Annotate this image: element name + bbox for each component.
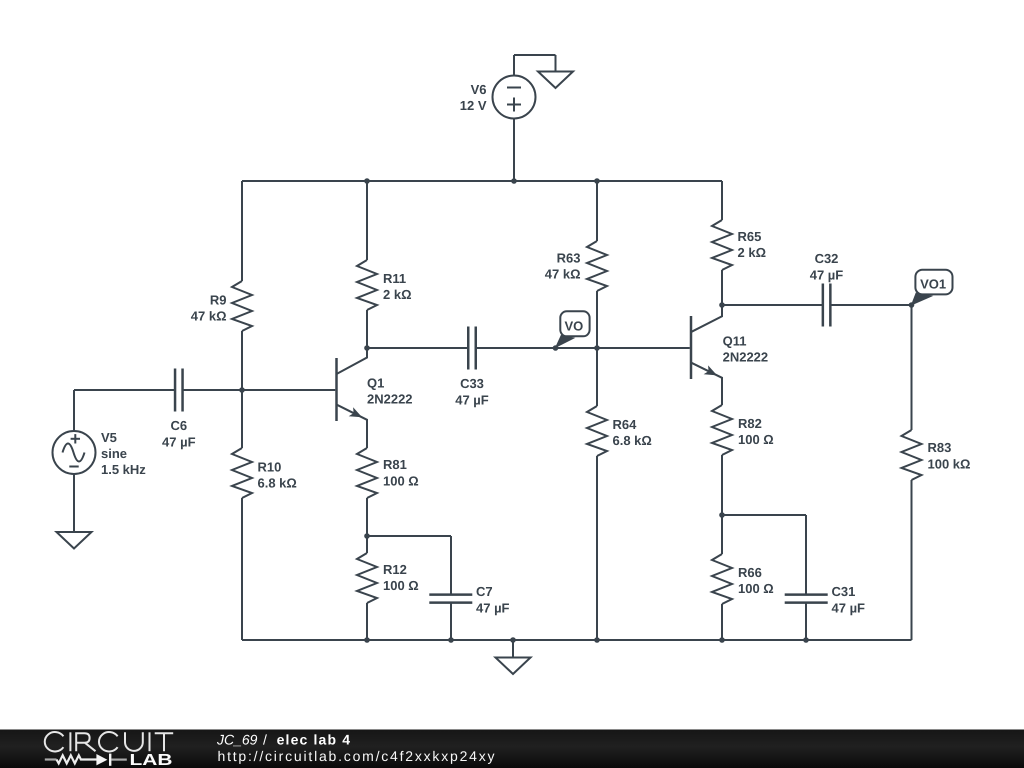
svg-text:47 µF: 47 µF <box>455 392 489 407</box>
svg-text:47 µF: 47 µF <box>832 600 866 615</box>
svg-text:2N2222: 2N2222 <box>723 349 769 364</box>
svg-text:100 Ω: 100 Ω <box>383 578 419 593</box>
svg-text:100 kΩ: 100 kΩ <box>928 456 971 471</box>
svg-text:Q1: Q1 <box>367 375 384 390</box>
svg-text:elec lab 4: elec lab 4 <box>277 732 351 748</box>
svg-text:1.5 kHz: 1.5 kHz <box>101 462 146 477</box>
svg-text:47 kΩ: 47 kΩ <box>545 267 581 282</box>
svg-text:R9: R9 <box>210 293 227 308</box>
svg-text:2N2222: 2N2222 <box>367 391 413 406</box>
svg-text:R63: R63 <box>557 251 581 266</box>
svg-text:47 kΩ: 47 kΩ <box>191 309 227 324</box>
svg-text:2 kΩ: 2 kΩ <box>383 287 412 302</box>
svg-text:R10: R10 <box>258 459 282 474</box>
svg-text:100 Ω: 100 Ω <box>738 432 774 447</box>
svg-text:http://circuitlab.com/c4f2xxkx: http://circuitlab.com/c4f2xxkxp24xy <box>218 748 495 764</box>
svg-text:/: / <box>263 732 267 748</box>
svg-text:R11: R11 <box>383 271 406 286</box>
svg-text:C32: C32 <box>815 251 839 266</box>
svg-text:LAB: LAB <box>130 752 173 768</box>
svg-text:100 Ω: 100 Ω <box>738 581 774 596</box>
svg-text:V6: V6 <box>471 82 487 97</box>
svg-text:R81: R81 <box>383 457 407 472</box>
svg-text:C33: C33 <box>460 376 484 391</box>
svg-text:VO1: VO1 <box>920 277 946 292</box>
svg-text:R64: R64 <box>613 417 638 432</box>
svg-text:V5: V5 <box>101 430 117 445</box>
svg-text:C31: C31 <box>832 584 856 599</box>
svg-text:R65: R65 <box>738 229 762 244</box>
svg-text:R83: R83 <box>928 440 952 455</box>
svg-text:C7: C7 <box>476 584 493 599</box>
svg-text:6.8 kΩ: 6.8 kΩ <box>258 475 297 490</box>
svg-text:47 µF: 47 µF <box>162 434 196 449</box>
svg-text:R12: R12 <box>383 562 407 577</box>
svg-text:VO: VO <box>565 319 584 334</box>
svg-text:2 kΩ: 2 kΩ <box>738 245 767 260</box>
svg-text:47 µF: 47 µF <box>810 267 844 282</box>
svg-text:47 µF: 47 µF <box>476 600 510 615</box>
svg-text:Q11: Q11 <box>723 333 747 348</box>
svg-text:12 V: 12 V <box>460 98 487 113</box>
svg-text:sine: sine <box>101 446 127 461</box>
svg-text:R66: R66 <box>738 565 762 580</box>
svg-text:R82: R82 <box>738 416 762 431</box>
svg-text:100 Ω: 100 Ω <box>383 473 419 488</box>
svg-text:JC_69: JC_69 <box>216 732 258 748</box>
svg-text:C6: C6 <box>170 418 187 433</box>
svg-text:6.8 kΩ: 6.8 kΩ <box>613 433 652 448</box>
